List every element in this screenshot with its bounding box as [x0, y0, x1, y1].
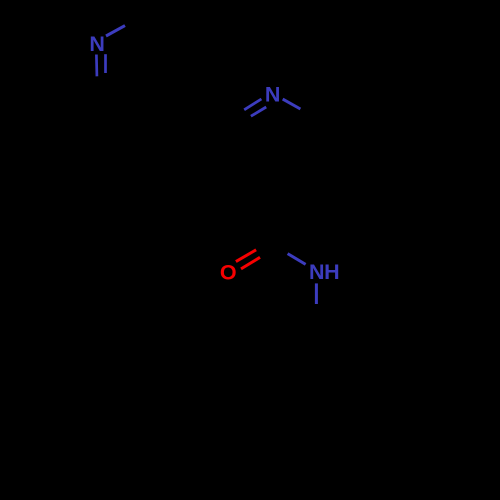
wire: bond N1-C2 (left ring, N-colored half): [106, 26, 125, 36]
wire: bond C2=N2 double (central ring) main line: [244, 99, 261, 110]
wire: bond N2-C6 (central ring, N-colored half): [283, 99, 301, 109]
wire: bond N1=C6 double (left ring) inner line: [104, 54, 107, 73]
svg-text:N: N: [309, 260, 325, 284]
wire: amide C-N bond (N-colored half): [288, 254, 306, 265]
svg-text:O: O: [220, 261, 237, 285]
svg-text:N: N: [265, 83, 281, 107]
wire: bond C=O double, lower line: [241, 257, 260, 269]
wire: bond C2=N2 double (central ring) inner line: [251, 107, 266, 116]
svg-text:H: H: [324, 260, 340, 284]
wire: bond N1=C6 double (left ring) main line: [95, 55, 98, 77]
svg-text:N: N: [89, 32, 105, 56]
wire: bond C=O double, upper line: [236, 250, 256, 262]
wire: bond N-CH2 (benzyl, N-colored half): [315, 283, 318, 304]
